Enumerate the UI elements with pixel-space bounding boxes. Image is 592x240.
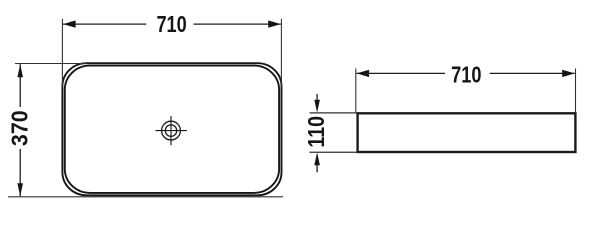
svg-text:370: 370 [7, 110, 33, 146]
svg-text:110: 110 [303, 116, 329, 148]
svg-text:710: 710 [156, 12, 186, 38]
svg-text:710: 710 [451, 63, 481, 89]
